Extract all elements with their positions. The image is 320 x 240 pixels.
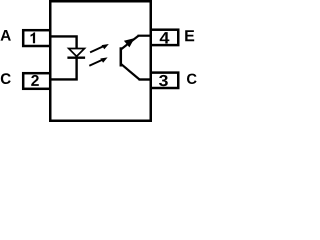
- LED D1 cathode bar: [67, 57, 85, 59]
- pin 2 box: [23, 73, 50, 89]
- Q1 collector (to pin 3): [121, 64, 140, 80]
- wire: LED cathode to pin2: [50, 58, 77, 80]
- node E (emitter) label: [185, 30, 194, 41]
- pin number 3: [159, 75, 168, 86]
- pin 4 box: [151, 30, 179, 45]
- wire: emitter to pin 4: [138, 35, 152, 37]
- package body U1: [50, 1, 151, 121]
- pin number 1: [31, 32, 36, 43]
- pin 1 box: [23, 30, 50, 46]
- pin 3 box: [151, 73, 179, 88]
- light arrow upper: [90, 44, 109, 52]
- node A label: [1, 30, 11, 41]
- wire: collector to pin 3: [139, 78, 152, 80]
- node C (cathode) label: [1, 73, 11, 84]
- pin number 4: [160, 32, 170, 43]
- light arrow lower: [89, 57, 107, 65]
- phototransistor Q1 base bar: [120, 47, 123, 66]
- node C (collector) label: [187, 74, 197, 84]
- pin number 2: [31, 75, 39, 86]
- Q1 emitter (to pin 4): [121, 36, 139, 50]
- LED D1 triangle: [69, 49, 85, 57]
- wire: pin1 to LED anode: [50, 36, 77, 48]
- Q1 emitter arrowhead: [124, 38, 135, 47]
